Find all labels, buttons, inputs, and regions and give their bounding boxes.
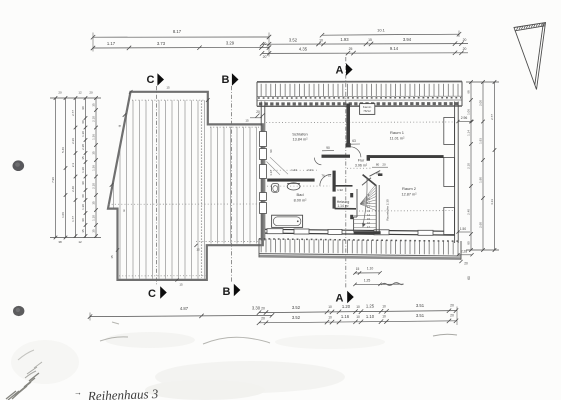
bathroom sink [287, 183, 300, 190]
svg-text:2.01: 2.01 [307, 168, 313, 172]
svg-text:90: 90 [326, 146, 330, 150]
svg-text:Bad: Bad [296, 192, 303, 197]
svg-text:A: A [336, 293, 344, 305]
svg-text:20: 20 [382, 163, 386, 167]
svg-text:1.92: 1.92 [337, 188, 343, 192]
svg-text:63: 63 [352, 139, 356, 143]
svg-text:10: 10 [319, 38, 323, 42]
svg-text:20: 20 [263, 55, 267, 59]
svg-text:2.36: 2.36 [71, 138, 75, 144]
terrace outline [108, 92, 263, 280]
door Raum 1 [350, 147, 361, 157]
svg-text:15: 15 [245, 119, 249, 123]
svg-text:3.51: 3.51 [416, 303, 425, 308]
svg-text:90: 90 [269, 149, 273, 153]
svg-text:Schlafen: Schlafen [292, 131, 308, 136]
svg-text:A: A [336, 64, 344, 76]
svg-text:11.01 m²: 11.01 m² [390, 136, 405, 140]
bottom long dimension 4.87 / 3.30 [90, 315, 272, 316]
svg-text:10: 10 [382, 315, 386, 319]
Bad door [320, 174, 331, 185]
north arrow [514, 23, 546, 90]
svg-text:1.06: 1.06 [61, 212, 65, 218]
svg-text:10: 10 [328, 305, 332, 309]
west wall window boxes [260, 132, 267, 147]
svg-text:2.00: 2.00 [479, 100, 483, 106]
svg-text:20: 20 [261, 306, 265, 310]
svg-text:17: 17 [367, 225, 371, 229]
svg-text:1.93: 1.93 [340, 37, 349, 42]
building right exterior wall [454, 102, 456, 244]
svg-text:35: 35 [92, 229, 96, 233]
svg-text:15: 15 [196, 248, 200, 252]
Schlafen door [314, 158, 321, 165]
svg-text:90: 90 [81, 181, 85, 185]
svg-text:1.13: 1.13 [269, 170, 273, 176]
svg-text:35: 35 [81, 156, 85, 160]
svg-text:2.96: 2.96 [461, 116, 468, 120]
svg-text:10: 10 [356, 315, 360, 319]
svg-text:a: a [123, 209, 125, 213]
svg-text:1.17: 1.17 [107, 41, 116, 46]
svg-text:3.96 m²: 3.96 m² [355, 163, 368, 167]
svg-text:80: 80 [467, 241, 471, 245]
svg-text:1.10: 1.10 [366, 314, 375, 319]
svg-text:2.3: 2.3 [71, 163, 75, 168]
interior small dims [348, 143, 360, 145]
svg-text:13.84 m²: 13.84 m² [293, 138, 309, 142]
svg-text:4.13: 4.13 [490, 199, 494, 205]
svg-text:1.10: 1.10 [367, 267, 374, 271]
small 20 dim at band left [256, 114, 260, 118]
svg-text:90: 90 [81, 218, 85, 222]
svg-text:35: 35 [92, 103, 96, 107]
svg-text:20: 20 [58, 91, 62, 95]
small right-side dims [458, 121, 472, 123]
svg-text:62: 62 [376, 172, 380, 176]
top band dash row [259, 102, 458, 105]
svg-text:C: C [147, 74, 155, 86]
svg-text:Raumhöhe 2.30: Raumhöhe 2.30 [386, 199, 390, 221]
svg-text:60: 60 [467, 276, 471, 280]
handwriting Reihenhaus [74, 386, 159, 400]
top dimension chain row1 left 8.17 [93, 36, 269, 38]
svg-text:2.10: 2.10 [92, 116, 96, 122]
top dimension chain row2 right [262, 52, 468, 55]
svg-text:80: 80 [376, 163, 380, 167]
svg-text:1.77: 1.77 [71, 216, 75, 222]
bathtub [272, 215, 303, 227]
Raum1 south wall [368, 155, 444, 158]
top band dash feet [258, 97, 461, 99]
svg-text:1.30: 1.30 [81, 131, 85, 137]
dim chain vertical connectors [92, 33, 94, 52]
svg-text:2.60: 2.60 [479, 222, 483, 228]
svg-text:35: 35 [92, 151, 96, 155]
bathroom fixtures: toilet [272, 184, 279, 193]
flur door leaves [370, 171, 381, 177]
svg-text:Flur: Flur [358, 159, 365, 163]
svg-text:90: 90 [81, 106, 85, 110]
svg-text:3.30: 3.30 [252, 306, 261, 311]
svg-text:Raum 1: Raum 1 [390, 130, 405, 135]
pencil squiggles bottom left [6, 322, 457, 400]
south wall window boxes [267, 229, 283, 234]
bottom dimension row1 [259, 311, 457, 313]
wall between Schlafen and Raum 1 [346, 104, 350, 148]
svg-text:20: 20 [450, 303, 454, 307]
Heizung walls [335, 185, 353, 187]
building bottom roof band [259, 239, 461, 255]
svg-text:25: 25 [349, 47, 353, 51]
svg-text:68: 68 [467, 90, 471, 94]
svg-text:1.25: 1.25 [366, 304, 375, 309]
east wall window boxes [444, 118, 455, 145]
knee-wall dotted lines [266, 121, 454, 124]
top dimension chain row0 right 10.1 [322, 34, 459, 35]
svg-text:3.52: 3.52 [292, 305, 301, 310]
svg-text:8.00 m²: 8.00 m² [294, 198, 308, 202]
svg-text:35: 35 [92, 201, 96, 205]
top dimension chain row1 right [262, 43, 468, 46]
svg-text:1.36: 1.36 [92, 165, 96, 171]
hole punch bottom [13, 306, 24, 316]
svg-text:9.14: 9.14 [390, 46, 399, 51]
svg-text:1.30: 1.30 [81, 204, 85, 210]
svg-text:3.73: 3.73 [157, 41, 166, 46]
svg-text:15: 15 [179, 283, 183, 287]
svg-text:10: 10 [356, 305, 360, 309]
svg-text:15: 15 [368, 38, 372, 42]
Flur north wall [322, 155, 351, 158]
terrace dotted lines [132, 99, 205, 101]
section line A [345, 57, 347, 289]
building left exterior wall [260, 102, 262, 241]
svg-text:1.34: 1.34 [291, 168, 297, 172]
right vertical dimension chains [466, 82, 499, 250]
svg-text:Raum 2: Raum 2 [402, 186, 417, 191]
svg-text:10.1: 10.1 [377, 27, 386, 32]
top dimension chain row2 left [93, 46, 269, 49]
svg-text:3.29: 3.29 [226, 41, 235, 46]
svg-text:3.52: 3.52 [292, 315, 301, 320]
small dims above bottom A marker [355, 272, 380, 274]
section line C [155, 86, 157, 285]
svg-text:2.77: 2.77 [71, 110, 75, 116]
svg-text:20: 20 [256, 110, 260, 114]
svg-text:78/12: 78/12 [363, 109, 371, 113]
terrace inner dotted vertical [201, 101, 203, 279]
svg-text:12: 12 [78, 240, 82, 244]
svg-text:20: 20 [261, 317, 265, 321]
svg-text:10: 10 [382, 304, 386, 308]
bottom dim connectors [89, 313, 91, 321]
svg-text:7.96: 7.96 [51, 177, 55, 183]
bottom dimension row2 [259, 321, 457, 323]
svg-text:10: 10 [328, 315, 332, 319]
svg-text:3.94: 3.94 [403, 37, 412, 42]
svg-text:2.77: 2.77 [490, 114, 494, 120]
svg-text:20: 20 [463, 38, 467, 42]
Bad east wall [333, 171, 336, 192]
terrace hatching [109, 100, 260, 278]
chimney [360, 104, 375, 115]
south interior wall [265, 229, 455, 231]
building top roof band [257, 84, 462, 97]
svg-text:15: 15 [166, 86, 170, 90]
svg-text:B: B [223, 286, 231, 298]
svg-text:1.20: 1.20 [342, 304, 351, 309]
svg-text:2.10: 2.10 [467, 163, 471, 169]
svg-text:20: 20 [463, 47, 467, 51]
svg-text:1.50: 1.50 [460, 227, 466, 231]
flur door post [378, 173, 382, 176]
svg-text:60: 60 [81, 194, 85, 198]
svg-text:1.90: 1.90 [479, 177, 483, 183]
svg-text:76: 76 [321, 173, 325, 177]
svg-text:→: → [74, 388, 82, 397]
svg-text:1.93: 1.93 [479, 138, 483, 144]
svg-text:2.40: 2.40 [467, 209, 471, 215]
svg-text:3.51: 3.51 [416, 313, 425, 318]
hole punch top [12, 160, 24, 171]
svg-text:1.10: 1.10 [92, 215, 96, 221]
svg-text:1.25: 1.25 [364, 279, 371, 283]
svg-text:1.16: 1.16 [341, 314, 350, 319]
svg-text:Reihenhaus 3: Reihenhaus 3 [87, 386, 159, 400]
svg-text:1.14 m²: 1.14 m² [337, 204, 349, 208]
svg-text:1.30: 1.30 [81, 167, 85, 173]
svg-text:35: 35 [81, 229, 85, 233]
svg-text:20: 20 [450, 314, 454, 318]
svg-text:8.17: 8.17 [173, 29, 182, 34]
svg-text:12: 12 [78, 91, 82, 95]
section line B [230, 86, 232, 283]
svg-text:15: 15 [110, 255, 114, 259]
svg-text:1.14: 1.14 [467, 130, 471, 136]
svg-text:1.36: 1.36 [92, 134, 96, 140]
Schlafen south wall [267, 179, 314, 182]
svg-text:38: 38 [58, 240, 62, 244]
svg-text:20: 20 [89, 91, 93, 95]
svg-text:B: B [222, 74, 230, 86]
svg-text:15: 15 [356, 267, 360, 271]
svg-text:10: 10 [328, 173, 332, 177]
svg-text:4.87: 4.87 [180, 306, 189, 311]
svg-text:2.40: 2.40 [71, 186, 75, 192]
svg-text:60: 60 [81, 120, 85, 124]
svg-text:3.52: 3.52 [289, 38, 298, 43]
svg-text:2.10: 2.10 [92, 183, 96, 189]
svg-text:2.38: 2.38 [81, 144, 85, 150]
svg-text:12.87 m²: 12.87 m² [402, 192, 418, 196]
svg-text:4.35: 4.35 [299, 47, 308, 52]
left vertical dimension chains [50, 98, 101, 238]
svg-text:C: C [148, 288, 156, 300]
svg-text:2.28: 2.28 [461, 250, 467, 254]
svg-text:20: 20 [464, 262, 468, 266]
svg-text:5.46: 5.46 [61, 147, 65, 153]
svg-text:1.06: 1.06 [467, 109, 471, 115]
stairs [375, 186, 377, 233]
